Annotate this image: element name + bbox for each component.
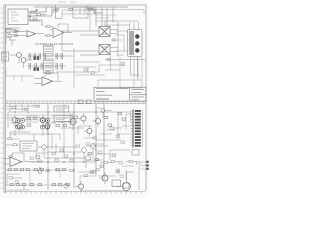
svg-text:ASTRON ELECTRONICS: ASTRON ELECTRONICS bbox=[35, 42, 73, 46]
